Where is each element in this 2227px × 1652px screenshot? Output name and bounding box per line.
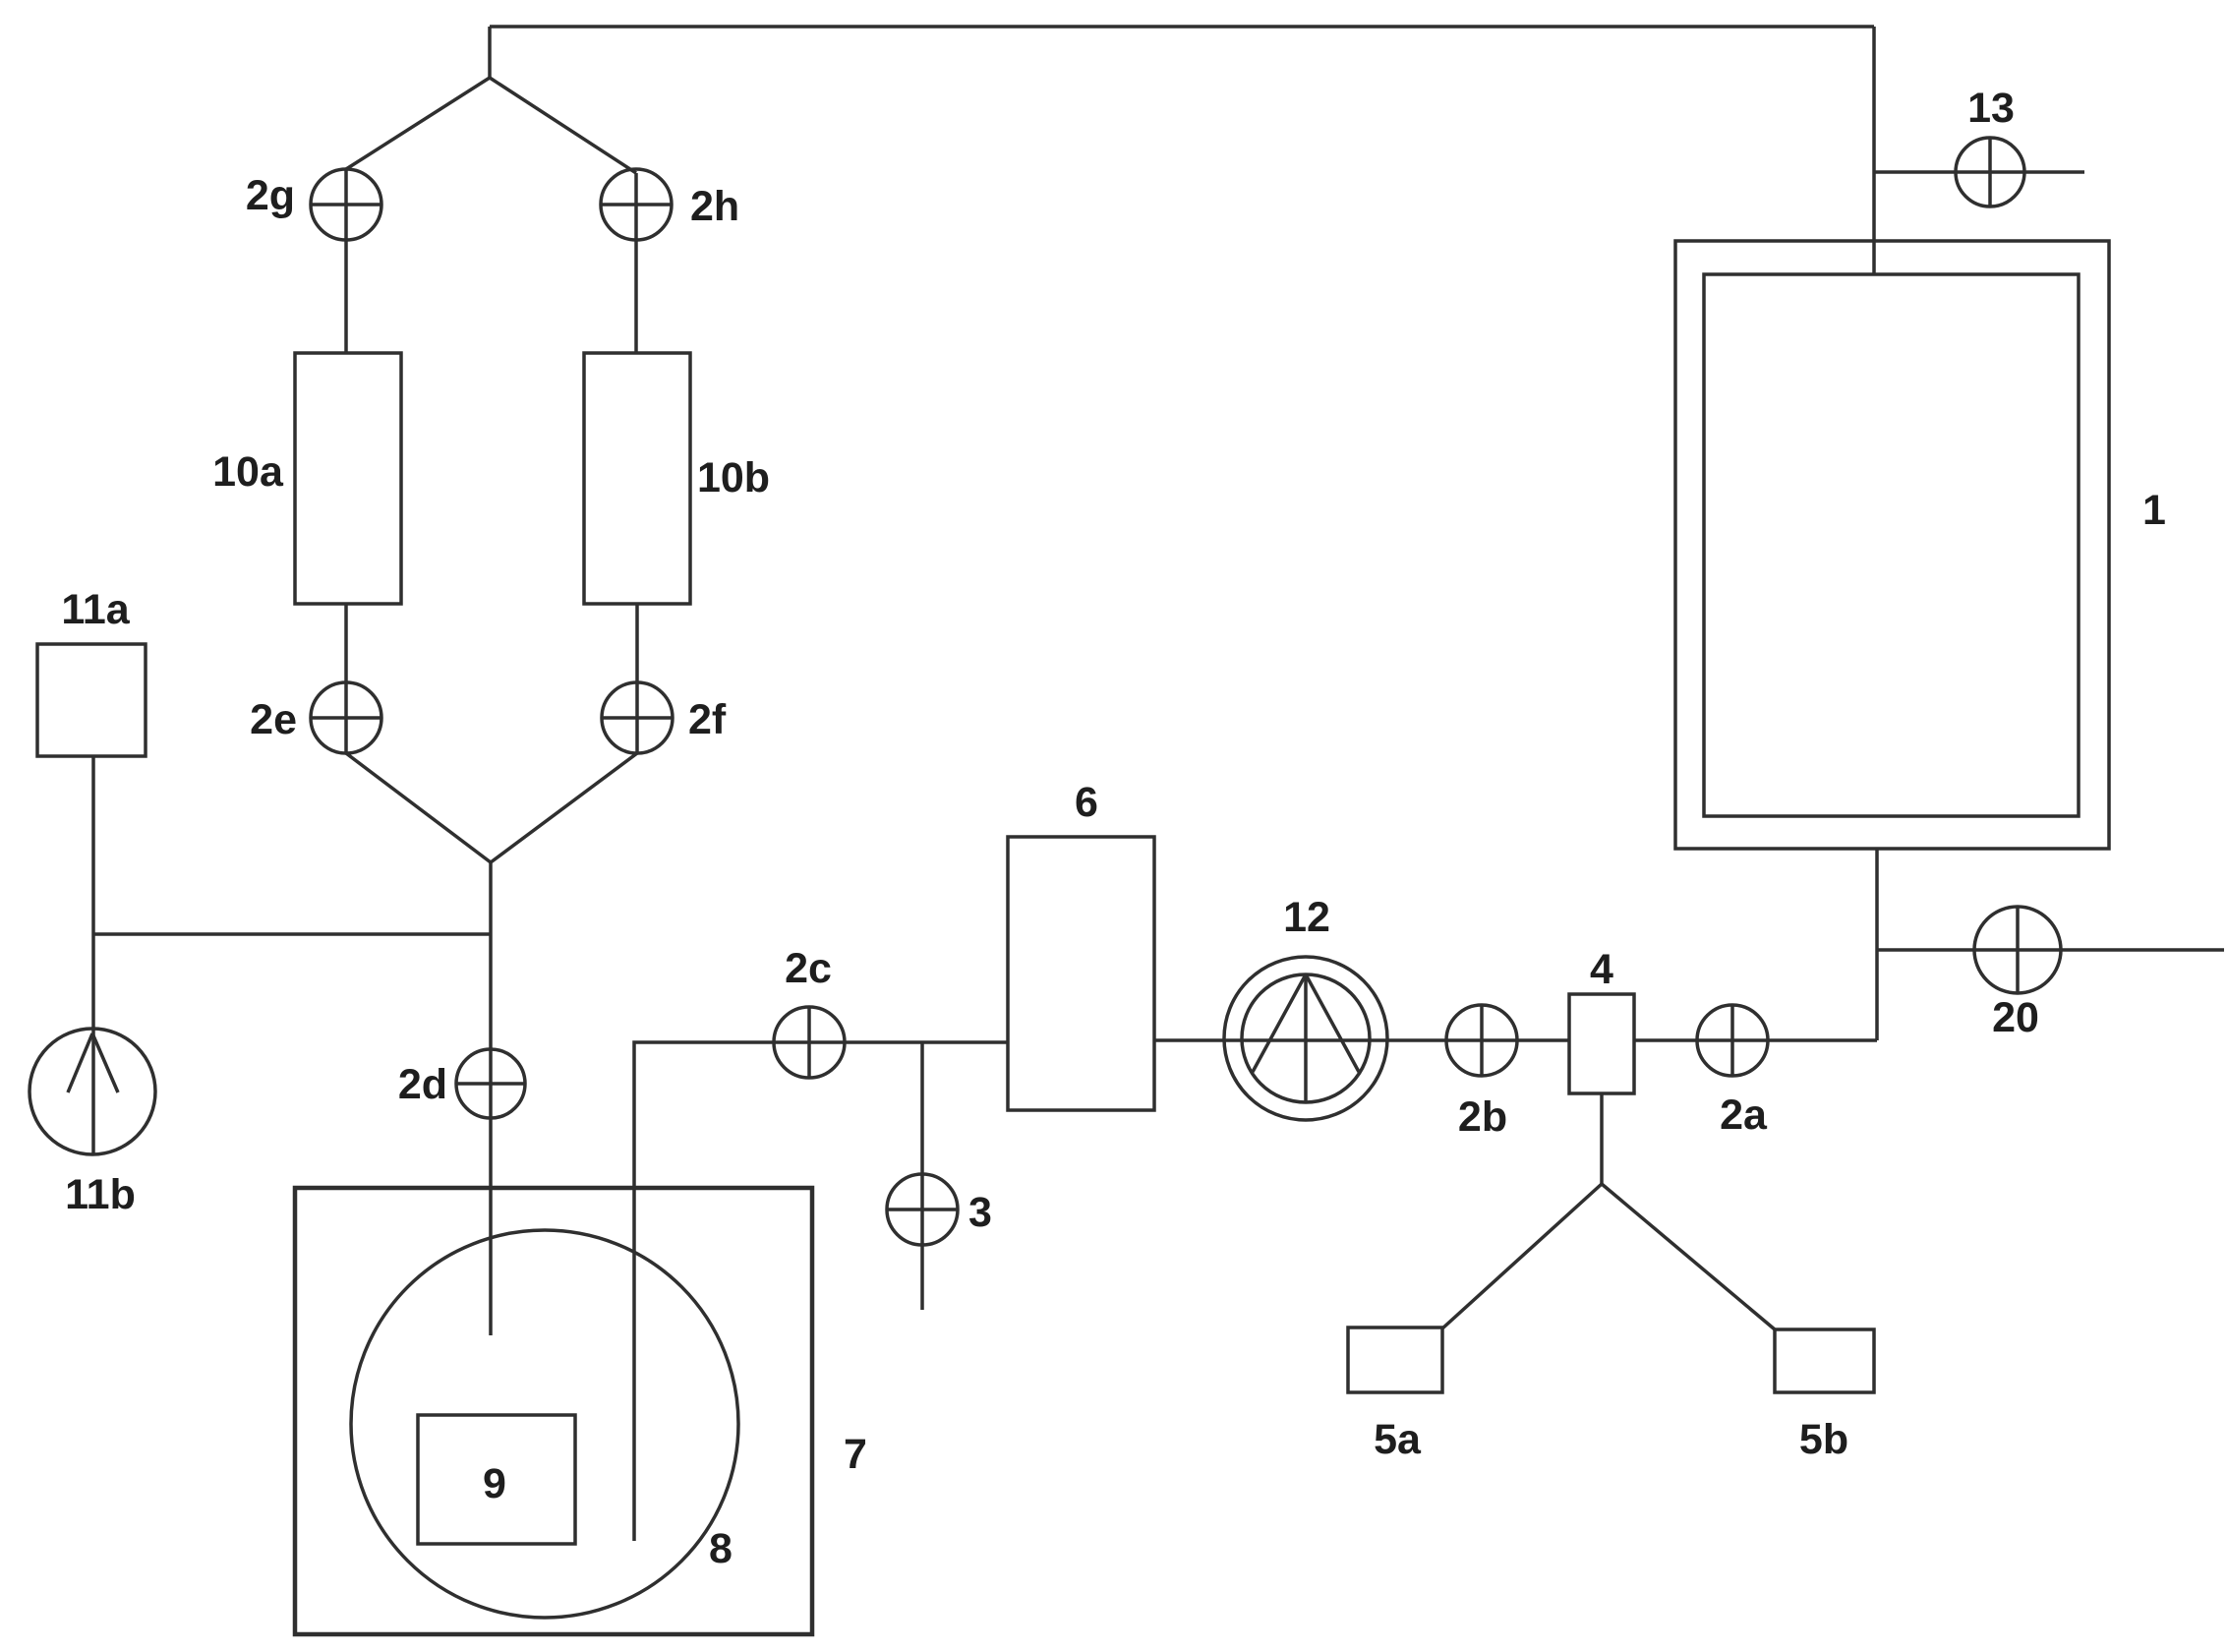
svg-text:2a: 2a: [1720, 1091, 1768, 1139]
svg-text:1: 1: [2142, 487, 2166, 534]
svg-text:6: 6: [1075, 779, 1098, 826]
svg-text:2c: 2c: [785, 945, 832, 992]
svg-text:11a: 11a: [61, 586, 130, 633]
svg-text:10a: 10a: [212, 448, 284, 496]
svg-text:12: 12: [1283, 894, 1330, 941]
svg-text:3: 3: [968, 1189, 992, 1236]
svg-text:2h: 2h: [690, 183, 739, 230]
svg-text:2e: 2e: [250, 696, 297, 743]
svg-text:7: 7: [844, 1431, 867, 1478]
svg-text:5a: 5a: [1374, 1416, 1422, 1463]
svg-text:10b: 10b: [697, 454, 770, 501]
svg-text:2b: 2b: [1458, 1093, 1507, 1141]
svg-text:2f: 2f: [688, 696, 727, 743]
svg-text:8: 8: [709, 1525, 733, 1572]
svg-text:2g: 2g: [246, 172, 295, 219]
svg-text:5b: 5b: [1799, 1416, 1848, 1463]
svg-text:13: 13: [1967, 85, 2015, 132]
svg-text:20: 20: [1992, 994, 2039, 1041]
svg-text:2d: 2d: [398, 1061, 447, 1108]
svg-text:11b: 11b: [65, 1171, 136, 1218]
svg-text:4: 4: [1590, 946, 1613, 993]
svg-text:9: 9: [483, 1460, 506, 1507]
